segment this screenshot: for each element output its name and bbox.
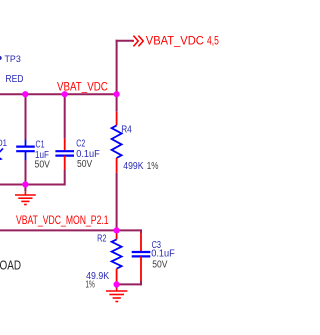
junction dot (MON rail / R2 top) xyxy=(114,227,120,233)
svg-text:RED: RED xyxy=(5,74,23,85)
svg-text:499K: 499K xyxy=(123,161,143,172)
wire vertical R4 lower segment xyxy=(116,173,118,231)
junction dot (D1/C1 rail, x=25) xyxy=(22,91,28,97)
svg-text:50V: 50V xyxy=(152,260,167,271)
svg-text:R4: R4 xyxy=(121,125,132,136)
resistor R4 xyxy=(112,112,159,173)
capacitor C1 xyxy=(16,94,50,184)
svg-text:R2: R2 xyxy=(97,234,107,245)
wire C3 bottom branch xyxy=(117,283,141,285)
capacitor C3 xyxy=(132,229,175,285)
wire C3 top branch xyxy=(117,229,141,231)
svg-text:4,5: 4,5 xyxy=(207,35,219,47)
svg-text:1%: 1% xyxy=(85,280,95,291)
svg-text:VBAT_VDC: VBAT_VDC xyxy=(146,36,204,48)
wire vertical riser to off-page (upper segment) xyxy=(116,40,118,112)
svg-text:VBAT_VDC_MON_P2.1: VBAT_VDC_MON_P2.1 xyxy=(16,215,109,227)
resistor R2 xyxy=(85,230,121,290)
svg-text:LOAD: LOAD xyxy=(0,258,21,272)
svg-text:C1: C1 xyxy=(36,140,45,151)
ground (under C1 rail) xyxy=(15,185,36,205)
svg-text:TP3: TP3 xyxy=(5,54,21,65)
wire bottom ground rail xyxy=(0,184,65,186)
svg-text:50V: 50V xyxy=(35,159,51,170)
text TO TP3 (clipped) xyxy=(0,56,2,60)
capacitor C2 xyxy=(55,94,99,185)
svg-text:50V: 50V xyxy=(77,159,92,170)
junction dot (C1/ground bottom rail) xyxy=(22,181,28,187)
diode D1 (mostly clipped at left edge) xyxy=(0,138,7,161)
svg-text:C2: C2 xyxy=(76,139,85,150)
junction dot (C2 rail, x=65) xyxy=(62,91,68,97)
ground (under R2/C3) xyxy=(106,284,127,301)
svg-text:1%: 1% xyxy=(147,161,159,172)
junction dot (R2 bottom / ground) xyxy=(114,281,120,287)
junction dot (rail corner, x=117) xyxy=(114,91,120,97)
svg-text:D1: D1 xyxy=(0,138,7,149)
off-page connector VBAT_VDC xyxy=(132,36,143,47)
wire VBAT_VDC top rail xyxy=(0,93,117,95)
wire VBAT_VDC_MON_P2.1 rail xyxy=(0,229,117,231)
wire off-page stub xyxy=(116,40,134,42)
svg-text:0.1uF: 0.1uF xyxy=(151,249,175,260)
